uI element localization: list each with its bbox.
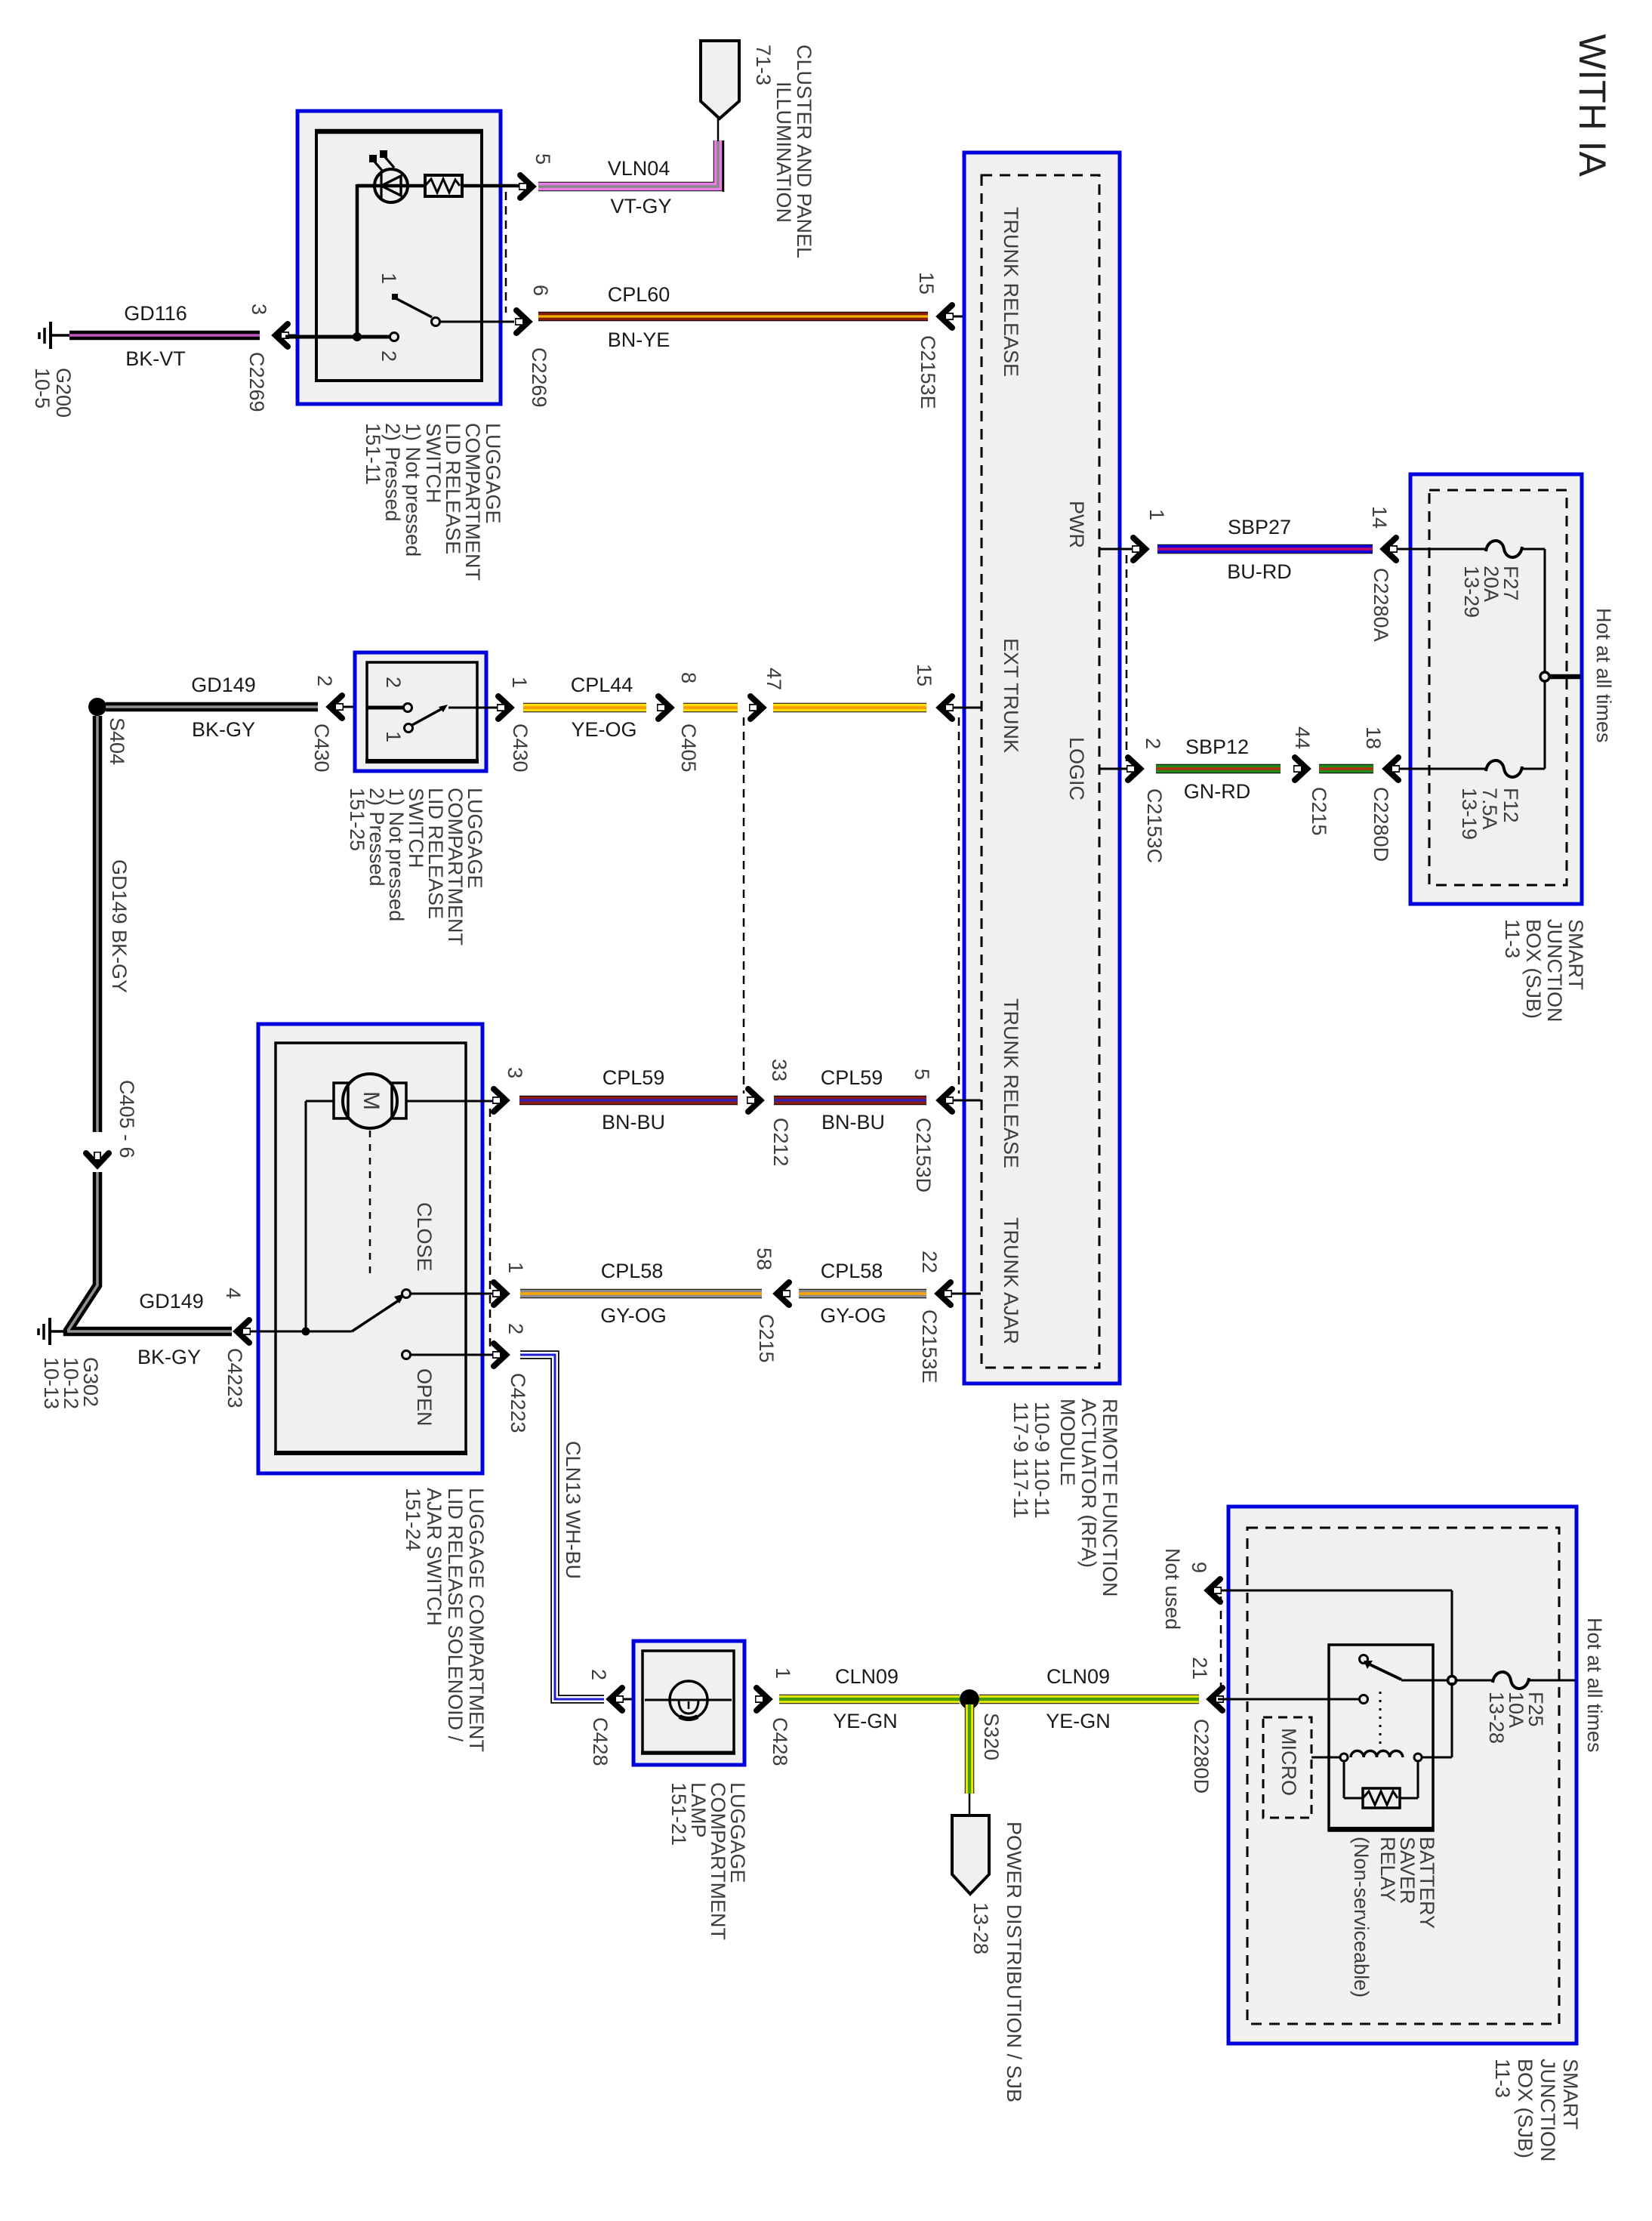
pin 21 connector C2280D (female arrow)	[1188, 1657, 1224, 1794]
pin 2 connector C430 (female arrow)	[310, 675, 356, 773]
wire lamp left lead	[357, 184, 375, 338]
svg-text:PWR: PWR	[1065, 501, 1088, 548]
svg-text:47: 47	[763, 668, 785, 690]
motor right lead	[406, 1100, 498, 1103]
relay common wire	[1401, 1680, 1448, 1682]
svg-text:1: 1	[772, 1667, 794, 1679]
solenoid common wire	[258, 1331, 352, 1333]
svg-text:6: 6	[529, 285, 552, 296]
svg-text:SWITCH: SWITCH	[422, 423, 445, 503]
pin 58 connector C215 (female arrow)	[753, 1248, 791, 1363]
svg-text:ACTUATOR (RFA): ACTUATOR (RFA)	[1077, 1399, 1100, 1568]
svg-text:151-25: 151-25	[346, 788, 368, 851]
pin 47 connector (male arrow)	[749, 668, 785, 719]
wire to fuse F12	[1399, 768, 1486, 770]
svg-text:ILLUMINATION: ILLUMINATION	[772, 82, 795, 223]
relay coil	[1340, 1751, 1422, 1761]
svg-text:1: 1	[508, 677, 531, 688]
SJB bottom label	[1491, 2059, 1582, 2162]
svg-text:CPL58: CPL58	[601, 1260, 664, 1282]
switch 151-25 blade pin 1	[405, 705, 448, 733]
svg-text:71-3: 71-3	[752, 45, 775, 85]
svg-text:C2153E: C2153E	[918, 1309, 941, 1383]
switch 151-25 output wire	[448, 707, 498, 709]
pin label 2	[378, 350, 400, 362]
svg-text:REMOTE FUNCTION: REMOTE FUNCTION	[1099, 1399, 1121, 1597]
svg-text:CPL58: CPL58	[821, 1260, 883, 1282]
svg-text:OPEN: OPEN	[413, 1368, 436, 1427]
svg-text:C2269: C2269	[528, 347, 550, 408]
svg-text:YE-GN: YE-GN	[1046, 1710, 1111, 1732]
svg-text:C4223: C4223	[507, 1373, 529, 1433]
wire SBP12 GN-RD (left)	[1156, 736, 1281, 803]
wire CPL59 BN-BU (left)	[519, 1066, 738, 1134]
svg-text:C2280A: C2280A	[1370, 568, 1392, 642]
svg-text:LID RELEASE SOLENOID /: LID RELEASE SOLENOID /	[444, 1488, 467, 1742]
RFA module label	[1009, 1399, 1121, 1597]
junction node	[302, 1328, 310, 1336]
svg-text:1: 1	[504, 1262, 527, 1273]
svg-text:VLN04: VLN04	[608, 157, 670, 180]
wire coil to bus	[1422, 1683, 1452, 1757]
wire VLN04 VT-GY	[538, 140, 723, 217]
svg-text:VT-GY: VT-GY	[610, 195, 671, 217]
svg-text:CLUSTER AND PANEL: CLUSTER AND PANEL	[793, 45, 815, 258]
solenoid switch blade	[352, 1294, 405, 1331]
fuse F25 10A	[1485, 1672, 1547, 1744]
svg-text:GD149: GD149	[139, 1290, 204, 1313]
svg-text:GD149 BK-GY: GD149 BK-GY	[108, 859, 131, 993]
svg-text:7.5A: 7.5A	[1478, 788, 1501, 830]
svg-text:13-19: 13-19	[1458, 788, 1481, 840]
svg-text:TRUNK RELEASE: TRUNK RELEASE	[1000, 207, 1022, 377]
wire S320 to power distribution	[965, 1704, 975, 1817]
wire CLN09 YE-GN (left)	[779, 1665, 960, 1732]
motor M	[334, 1074, 406, 1128]
ground G200	[31, 322, 75, 418]
wire to fuse F27	[1397, 548, 1486, 551]
pin label 2	[382, 677, 405, 688]
svg-text:11-3: 11-3	[1501, 919, 1524, 958]
CLOSE contact	[402, 1202, 436, 1298]
hot at all times node	[1540, 608, 1615, 743]
svg-text:(Non-serviceable): (Non-serviceable)	[1350, 1837, 1373, 1997]
junction node in switch	[353, 332, 362, 341]
svg-text:15: 15	[913, 664, 935, 686]
pin 4 connector C4223 (female arrow)	[222, 1288, 257, 1408]
pin 3 connector C2269 (female arrow)	[245, 304, 300, 412]
svg-text:1: 1	[1145, 509, 1168, 520]
svg-text:RELAY: RELAY	[1376, 1837, 1399, 1902]
svg-text:GY-OG: GY-OG	[820, 1304, 886, 1327]
wire GD149 BK-GY (to ground)	[68, 1172, 232, 1368]
svg-text:CLOSE: CLOSE	[413, 1202, 436, 1272]
pin 5 connector (male arrow)	[519, 153, 554, 198]
svg-text:1: 1	[382, 731, 405, 742]
svg-text:S404: S404	[106, 717, 128, 765]
svg-text:110-9 110-11: 110-9 110-11	[1031, 1402, 1053, 1519]
pin 3 connector C4223 (male arrow)	[492, 1067, 526, 1112]
svg-text:BN-BU: BN-BU	[602, 1111, 665, 1134]
connector C2280D dashed link	[1220, 1596, 1222, 1693]
svg-text:GN-RD: GN-RD	[1184, 780, 1251, 803]
svg-text:2: 2	[504, 1323, 527, 1334]
svg-text:Not used: Not used	[1161, 1548, 1184, 1630]
svg-text:CLN09: CLN09	[1046, 1665, 1110, 1688]
pin label 1	[382, 731, 405, 742]
svg-text:C405: C405	[677, 723, 700, 773]
svg-text:CPL59: CPL59	[821, 1066, 883, 1089]
relay output contact	[1360, 1695, 1368, 1704]
switch 151-11 label	[362, 423, 504, 581]
wire CLN09 YE-GN (right)	[979, 1665, 1199, 1732]
wire GD149 BK-GY (to switch)	[106, 674, 318, 741]
pin 5 connector C2153D (female arrow)	[911, 1069, 981, 1192]
svg-text:44: 44	[1291, 726, 1314, 749]
svg-text:BN-BU: BN-BU	[821, 1111, 885, 1134]
svg-text:C430: C430	[509, 723, 532, 773]
svg-text:58: 58	[753, 1248, 775, 1270]
svg-text:33: 33	[768, 1059, 791, 1081]
relay blade	[1364, 1661, 1401, 1680]
svg-text:M: M	[359, 1091, 384, 1110]
svg-text:21: 21	[1188, 1657, 1211, 1680]
svg-text:C2153C: C2153C	[1143, 788, 1166, 863]
svg-text:CPL44: CPL44	[571, 674, 633, 696]
svg-text:18: 18	[1362, 726, 1385, 749]
svg-text:JUNCTION: JUNCTION	[1543, 919, 1566, 1023]
svg-text:C2280D: C2280D	[1370, 787, 1392, 862]
svg-text:LUGGAGE COMPARTMENT: LUGGAGE COMPARTMENT	[465, 1488, 488, 1752]
svg-text:C2153E: C2153E	[917, 335, 939, 409]
svg-text:SBP27: SBP27	[1228, 516, 1291, 538]
svg-text:BK-GY: BK-GY	[192, 718, 255, 741]
wire CPL44 YE-OG (segment 1)	[523, 674, 646, 741]
wire relay to fuse F25	[1456, 1680, 1493, 1682]
svg-text:10-5: 10-5	[31, 368, 54, 409]
svg-text:C215: C215	[1308, 787, 1330, 836]
svg-text:YE-GN: YE-GN	[833, 1710, 898, 1732]
svg-text:Hot at all times: Hot at all times	[1592, 608, 1615, 743]
connector dashed link C2153D	[958, 717, 960, 1094]
off-page connector CLUSTER AND PANEL ILLUMINATION	[701, 41, 815, 258]
RFA pin name TRUNK RELEASE (lower)	[1000, 998, 1022, 1168]
wire SBP27 BU-RD	[1157, 516, 1373, 583]
svg-text:1: 1	[378, 273, 400, 284]
svg-text:2: 2	[382, 677, 405, 688]
relay junction node	[1448, 1677, 1456, 1685]
wire GD116 BK-VT	[69, 302, 260, 370]
svg-text:C405 - 6: C405 - 6	[116, 1080, 138, 1158]
svg-text:F12: F12	[1499, 788, 1522, 823]
pin 44 connector C215 (male arrow)	[1291, 726, 1330, 836]
wire GD149 BK-GY (S404 down)	[97, 716, 131, 1132]
svg-text:15: 15	[915, 272, 938, 295]
wire SBP12 GN-RD (right)	[1319, 764, 1373, 774]
svg-text:BN-YE: BN-YE	[608, 329, 670, 351]
svg-text:EXT TRUNK: EXT TRUNK	[1000, 638, 1022, 753]
connector C2269 dashed link	[505, 192, 507, 313]
relay coil resistor	[1344, 1761, 1418, 1808]
svg-text:GY-OG: GY-OG	[600, 1304, 667, 1327]
wire F25 to hot	[1529, 1618, 1606, 1753]
svg-text:CPL60: CPL60	[608, 283, 670, 306]
svg-text:C430: C430	[310, 723, 333, 773]
RFA pin name PWR	[1065, 501, 1088, 548]
svg-text:5: 5	[532, 153, 554, 165]
splice S320	[960, 1689, 1003, 1760]
svg-text:GD149: GD149	[191, 674, 256, 696]
illumination lamp symbol	[357, 150, 425, 202]
svg-text:C2153D: C2153D	[912, 1118, 935, 1192]
wire OPEN to pin 2	[411, 1354, 498, 1356]
pin label 1	[378, 273, 400, 284]
svg-text:2: 2	[1142, 738, 1164, 749]
solenoid 151-24 label	[402, 1488, 488, 1752]
wire resistor to pin 5	[462, 184, 519, 188]
wire CLN13 WH-BU	[520, 1355, 604, 1699]
svg-text:151-21: 151-21	[667, 1782, 690, 1846]
svg-text:22: 22	[918, 1251, 941, 1273]
motor left lead	[306, 1101, 334, 1331]
pin 14 connector C2280A (female arrow)	[1368, 506, 1398, 642]
connector C405 pin 6 (male arrow down)	[86, 1080, 138, 1165]
svg-text:BK-VT: BK-VT	[125, 347, 186, 370]
svg-text:SMART: SMART	[1559, 2059, 1582, 2130]
wire switch common	[285, 335, 390, 339]
svg-text:GD116: GD116	[124, 302, 187, 325]
fuse F12 7.5A	[1458, 760, 1522, 840]
switch contact pin 2	[390, 333, 399, 341]
svg-text:2: 2	[313, 675, 336, 686]
relay pivot contact	[1360, 1655, 1368, 1664]
pin 1 connector C4223 (male arrow)	[492, 1262, 527, 1305]
wire pin 21 to relay	[1218, 1698, 1359, 1701]
svg-text:14: 14	[1368, 506, 1391, 529]
pin 2 connector C2153C (male arrow)	[1127, 738, 1166, 863]
svg-text:G200: G200	[52, 368, 75, 418]
wire CPL44 YE-OG (segment 2)	[683, 703, 738, 713]
connector C4223 dashed link	[489, 1109, 492, 1347]
svg-text:JUNCTION: JUNCTION	[1536, 2059, 1559, 2162]
svg-text:SMART: SMART	[1564, 919, 1587, 990]
smart junction box (SJB) bottom	[1228, 1507, 1576, 2044]
luggage compartment lid release solenoid box	[258, 1024, 482, 1473]
svg-text:13-28: 13-28	[1485, 1692, 1508, 1744]
svg-text:C215: C215	[755, 1314, 778, 1363]
pin 33 connector C212 (male arrow)	[747, 1059, 792, 1167]
mechanical link dashed	[369, 1131, 371, 1276]
svg-text:BU-RD: BU-RD	[1227, 560, 1292, 583]
wire CPL60 BN-YE	[538, 283, 928, 351]
RFA pin name LOGIC	[1065, 737, 1088, 800]
smart junction box (SJB) top	[1410, 474, 1582, 904]
wire MICRO to coil	[1311, 1757, 1340, 1759]
MICRO dashed box	[1263, 1717, 1311, 1818]
svg-text:13-28: 13-28	[969, 1902, 992, 1954]
svg-text:TRUNK AJAR: TRUNK AJAR	[1000, 1217, 1022, 1344]
svg-text:BOX (SJB): BOX (SJB)	[1514, 2059, 1536, 2158]
fuse F27 20A	[1460, 541, 1522, 618]
svg-text:C428: C428	[769, 1717, 791, 1766]
wire F27 to hot bus	[1522, 549, 1545, 672]
svg-text:S320: S320	[980, 1713, 1003, 1760]
RFA pin name TRUNK RELEASE (top)	[1000, 207, 1022, 377]
svg-text:11-3: 11-3	[1491, 2059, 1514, 2098]
SJB top label	[1501, 919, 1587, 1023]
pin 15 connector C2153D (female arrow)	[913, 664, 981, 719]
svg-text:BK-GY: BK-GY	[137, 1346, 201, 1368]
svg-text:C4223: C4223	[223, 1348, 246, 1408]
switch 151-25 wire common	[367, 706, 403, 710]
pin 2 connector C4223 (male arrow)	[492, 1323, 529, 1433]
ground G302	[39, 1318, 102, 1409]
svg-text:TRUNK RELEASE: TRUNK RELEASE	[1000, 998, 1022, 1168]
RFA pin name EXT TRUNK	[1000, 638, 1022, 753]
svg-text:YE-OG: YE-OG	[571, 718, 636, 741]
svg-text:3: 3	[248, 304, 270, 315]
svg-text:117-9 117-11: 117-9 117-11	[1009, 1402, 1032, 1519]
svg-text:WITH IA: WITH IA	[1571, 34, 1613, 177]
svg-text:9: 9	[1188, 1562, 1210, 1573]
luggage compartment lamp box	[633, 1641, 744, 1765]
svg-text:2: 2	[378, 350, 400, 362]
splice S404	[88, 698, 128, 765]
wire pin 9 to relay bus	[1221, 1590, 1452, 1678]
wire CPL58 GY-OG (left)	[520, 1260, 762, 1327]
wire hot bus to F12	[1522, 682, 1545, 769]
wire CPL58 GY-OG (right)	[799, 1260, 926, 1327]
svg-text:LUGGAGE: LUGGAGE	[482, 423, 504, 524]
svg-text:C212: C212	[769, 1118, 792, 1167]
svg-text:MODULE: MODULE	[1056, 1399, 1079, 1486]
pin 6 connector C2269 (female arrow)	[515, 285, 552, 408]
relay actuation dotted link	[1379, 1692, 1382, 1746]
battery saver relay box	[1329, 1645, 1433, 1831]
pin 9 not used (female arrow)	[1161, 1548, 1222, 1630]
svg-text:C428: C428	[589, 1717, 612, 1766]
remote function actuator (RFA) module box	[964, 153, 1120, 1383]
svg-text:AJAR SWITCH: AJAR SWITCH	[423, 1488, 445, 1626]
OPEN contact	[402, 1351, 436, 1427]
title WITH IA	[1571, 34, 1613, 177]
RFA pin name TRUNK AJAR	[1000, 1217, 1022, 1344]
wire CLOSE to pin 1	[411, 1293, 498, 1295]
svg-text:2: 2	[587, 1669, 610, 1680]
svg-text:151-11: 151-11	[362, 423, 384, 485]
pin 22 connector C2153E (female arrow)	[918, 1251, 981, 1383]
svg-text:151-24: 151-24	[402, 1488, 424, 1551]
svg-text:CPL59: CPL59	[603, 1066, 665, 1089]
switch blade pin 1	[392, 294, 440, 326]
pin 1 connector C428 (male arrow)	[755, 1667, 794, 1766]
svg-text:1) Not pressed: 1) Not pressed	[402, 423, 424, 557]
wire CPL59 BN-BU (right)	[774, 1066, 926, 1134]
pin 15 connector C2153E (female arrow)	[915, 272, 981, 409]
switch 151-25 contact pin 2	[404, 704, 412, 712]
svg-text:10-13: 10-13	[40, 1357, 63, 1409]
lamp label	[667, 1782, 749, 1940]
svg-text:LOGIC: LOGIC	[1065, 737, 1088, 800]
resistor in switch	[425, 175, 462, 196]
connector dashed link C405-C212	[743, 717, 745, 1094]
svg-text:CLN09: CLN09	[835, 1665, 898, 1688]
svg-text:CLN13 WH-BU: CLN13 WH-BU	[562, 1441, 584, 1579]
wire blade to pin 6	[441, 321, 514, 323]
svg-text:3: 3	[504, 1067, 526, 1078]
svg-text:4: 4	[222, 1288, 245, 1299]
luggage compartment lid release switch 151-11 box	[297, 111, 501, 404]
wire CPL44 YE-OG (segment 3)	[773, 703, 926, 713]
switch 151-25 label	[346, 788, 486, 945]
svg-text:8: 8	[677, 672, 700, 683]
svg-text:POWER DISTRIBUTION / SJB: POWER DISTRIBUTION / SJB	[1003, 1822, 1025, 2102]
svg-text:BOX (SJB): BOX (SJB)	[1522, 919, 1545, 1019]
pin 1 connector C2153C (male arrow)	[1132, 509, 1168, 560]
connector C2153C dashed link	[1126, 555, 1128, 761]
pin 1 connector C430 (male arrow)	[497, 677, 532, 773]
svg-text:SBP12: SBP12	[1185, 736, 1249, 758]
lamp bulb symbol	[645, 1681, 732, 1719]
wire RFA LOGIC lead	[1099, 768, 1127, 770]
wire RFA PWR lead	[1099, 548, 1133, 551]
svg-text:C2269: C2269	[245, 352, 268, 412]
pin 8 connector C405 (male arrow)	[657, 672, 700, 773]
pin 18 connector C2280D (female arrow)	[1362, 726, 1400, 862]
off-page connector POWER DISTRIBUTION / SJB	[952, 1815, 1025, 2102]
pin 2 connector C428 (female arrow)	[587, 1669, 633, 1766]
svg-text:Hot at all times: Hot at all times	[1583, 1618, 1606, 1753]
svg-text:C2280D: C2280D	[1190, 1719, 1213, 1794]
svg-text:MICRO: MICRO	[1278, 1728, 1300, 1796]
luggage compartment lid release switch 151-25 box	[355, 652, 486, 771]
svg-text:5: 5	[911, 1069, 933, 1080]
battery saver relay label	[1350, 1837, 1438, 1997]
svg-text:13-29: 13-29	[1460, 566, 1483, 618]
